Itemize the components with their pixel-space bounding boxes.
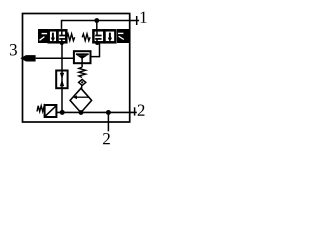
port 1 tick bbox=[136, 16, 138, 25]
node junction orifice-bus bbox=[60, 110, 65, 115]
label port 3 bbox=[10, 44, 17, 55]
wire right valve to pilot box bbox=[91, 42, 100, 56]
wire left valve down to orifice bbox=[61, 43, 63, 71]
port 2 right tick bbox=[134, 107, 136, 115]
node junction port2 drop bbox=[106, 110, 111, 115]
right valve position square A blocked bbox=[93, 30, 104, 42]
enclosure border bbox=[23, 14, 130, 123]
solenoid left valve (proportional solenoid, black box) bbox=[38, 29, 48, 43]
left valve spring bbox=[67, 34, 75, 41]
label port 2 bottom bbox=[103, 133, 110, 144]
wire bottom bus line to port 2 bbox=[57, 111, 137, 113]
wire orifice to bus bbox=[61, 88, 63, 112]
wire port 2 bottom drop bbox=[107, 112, 109, 131]
small diamond check valve bbox=[79, 79, 86, 85]
left valve position square 1 bbox=[49, 30, 58, 42]
bottom orifice box with diagonal bbox=[45, 105, 57, 117]
node junction on port-1 line bbox=[94, 18, 99, 23]
pilot valve box with seat poppet bbox=[74, 51, 91, 67]
solenoid right valve (proportional solenoid, black box) bbox=[117, 29, 129, 43]
left valve position square 2 blocked bbox=[58, 30, 67, 42]
filter diamond with arrow bbox=[70, 88, 92, 112]
right valve spring bbox=[82, 34, 90, 41]
node junction diamond-bus bbox=[79, 110, 84, 115]
main spool orifice box bbox=[56, 71, 67, 89]
label port 2 right bbox=[138, 105, 145, 116]
wire drop to right valve bbox=[96, 21, 98, 31]
node junction left valve bottom bbox=[60, 41, 64, 45]
node junction right valve bottom bbox=[95, 41, 99, 45]
bottom spring for spool box bbox=[37, 106, 45, 112]
port 3 plug symbol bbox=[20, 55, 35, 61]
pilot spring vertical bbox=[79, 67, 86, 77]
label port 1 bbox=[141, 12, 147, 23]
wire port-1 line bbox=[62, 21, 140, 29]
right valve position square B bbox=[104, 30, 115, 42]
wire diamond link bbox=[81, 85, 83, 89]
wire port 3 line bbox=[36, 57, 75, 59]
